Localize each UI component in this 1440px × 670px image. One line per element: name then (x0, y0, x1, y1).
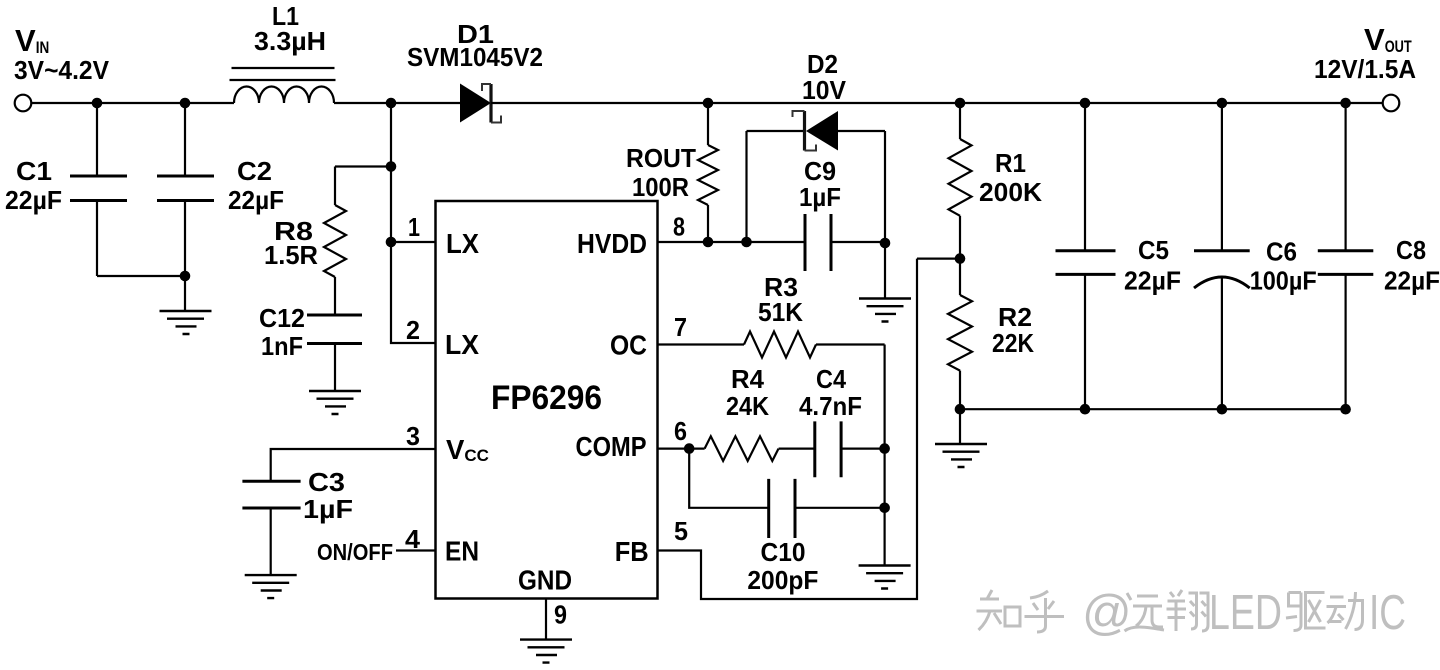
wire pin7 OC to R3 (658, 343, 745, 345)
svg-text:OC: OC (610, 330, 647, 361)
watermark char dong (1327, 592, 1363, 630)
svg-text:8: 8 (673, 212, 685, 242)
junction ROUT top (703, 98, 714, 109)
resistor R3 (744, 332, 885, 358)
watermark char zhi (977, 590, 1003, 630)
svg-text:22µF: 22µF (1124, 266, 1181, 296)
svg-text:3V~4.2V: 3V~4.2V (14, 55, 110, 85)
capacitor C12 (307, 315, 362, 391)
wire D2/C9 right vertical to ground (884, 131, 886, 299)
junction C6 top (1217, 98, 1228, 109)
svg-text:SVM1045V2: SVM1045V2 (407, 42, 543, 72)
svg-text:LX: LX (445, 329, 480, 360)
svg-text:9: 9 (554, 600, 567, 630)
svg-text:FB: FB (615, 536, 649, 567)
resistor R8 (324, 167, 346, 316)
junction R1/R2 FB node (955, 253, 966, 264)
svg-text:12V/1.5A: 12V/1.5A (1314, 54, 1416, 84)
wire COMP node down to C10 (689, 449, 769, 508)
ground under R3/C4/C10 vertical (859, 566, 911, 589)
svg-text:C3: C3 (308, 467, 345, 497)
junction C10 right (879, 503, 890, 514)
svg-text:IC: IC (1369, 586, 1406, 640)
svg-text:LED: LED (1209, 586, 1282, 640)
svg-text:ROUT: ROUT (626, 143, 696, 173)
junction R8 tap (386, 161, 397, 172)
junction R2 bottom ground node (955, 404, 966, 415)
junction C5 top (1080, 98, 1091, 109)
svg-text:4.7nF: 4.7nF (799, 391, 862, 421)
wire FB node to x917 (917, 258, 960, 260)
resistor R1 (949, 103, 972, 259)
svg-text:200pF: 200pF (747, 565, 818, 595)
junction LX node at x391 (386, 98, 397, 109)
resistor R4 (705, 436, 815, 461)
wire R3/C4/C10 right vertical to ground (883, 345, 885, 566)
junction C6 bottom (1217, 404, 1228, 415)
svg-text:C5: C5 (1138, 235, 1169, 265)
svg-text:C2: C2 (237, 156, 272, 186)
watermark char yuan (1125, 593, 1165, 631)
watermark zhihu logo text (977, 586, 1407, 640)
svg-text:HVDD: HVDD (577, 228, 647, 259)
wire D2 left vertical (745, 131, 747, 242)
svg-text:C10: C10 (761, 537, 806, 567)
svg-text:6: 6 (674, 416, 687, 446)
IC U1 FP6296 body (436, 201, 658, 599)
capacitor C1 (70, 103, 127, 276)
junction pin1 tap (386, 237, 397, 248)
watermark char qu (1286, 593, 1326, 631)
svg-text:C4: C4 (816, 364, 846, 394)
wire C1 bottom to C2 bottom (97, 275, 185, 277)
svg-text:2: 2 (406, 315, 420, 345)
svg-text:51K: 51K (758, 297, 803, 327)
ground under C3 (245, 575, 297, 598)
junction ROUT bottom (703, 237, 714, 248)
wire pin9 GND (545, 599, 547, 640)
svg-text:COMP: COMP (576, 431, 647, 462)
capacitor C9 (805, 214, 885, 271)
svg-text:10V: 10V (802, 75, 847, 105)
wire pin8 HVDD to C9 left (658, 241, 806, 243)
svg-text:22µF: 22µF (1384, 266, 1440, 296)
wire pin3 VCC to C3 (271, 449, 436, 481)
capacitor C6 polarized (1194, 103, 1250, 409)
svg-text:FP6296: FP6296 (491, 379, 602, 417)
junction C4 right (879, 443, 890, 454)
wire LX vertical x391 (391, 103, 436, 343)
wire ground bus to C5 C6 C8 (960, 408, 1346, 410)
svg-text:100R: 100R (632, 172, 689, 202)
svg-text:C1: C1 (16, 156, 52, 186)
junction R1 top (955, 98, 966, 109)
watermark char hu (1025, 591, 1065, 632)
svg-text:R1: R1 (995, 148, 1026, 178)
svg-text:22µF: 22µF (228, 185, 284, 215)
svg-text:22µF: 22µF (5, 185, 62, 215)
capacitor C8 (1318, 103, 1374, 409)
junction C8 bottom (1340, 404, 1351, 415)
node VOUT terminal (1383, 95, 1400, 112)
svg-text:7: 7 (674, 312, 687, 342)
wire pin4 EN (396, 549, 436, 551)
wire R8 top branch (335, 165, 391, 167)
ground under C1/C2 (160, 311, 212, 334)
wire input bus VIN to L1 (31, 102, 234, 104)
wire pin1 LX (391, 241, 436, 243)
junction D2 left leg (741, 237, 752, 248)
inductor L1 (230, 68, 336, 103)
svg-text:GND: GND (518, 564, 572, 595)
svg-text:1nF: 1nF (261, 331, 303, 361)
svg-text:1µF: 1µF (799, 182, 841, 212)
capacitor C2 (157, 103, 214, 311)
svg-text:1µF: 1µF (303, 494, 353, 524)
wire output bus D1 to VOUT (491, 102, 1383, 104)
svg-text:1: 1 (408, 212, 420, 242)
svg-text:R4: R4 (731, 364, 765, 394)
capacitor C10 (769, 479, 885, 538)
capacitor C3 (242, 481, 300, 575)
junction C8 top (1340, 98, 1351, 109)
resistor ROUT (698, 103, 718, 242)
svg-text:@: @ (1082, 586, 1132, 640)
svg-text:C6: C6 (1266, 237, 1297, 267)
svg-text:200K: 200K (979, 177, 1042, 207)
svg-text:5: 5 (674, 516, 688, 546)
svg-text:24K: 24K (726, 391, 769, 421)
svg-text:1.5R: 1.5R (264, 240, 318, 270)
wire pin6 COMP to R4 (658, 448, 705, 450)
resistor R2 (948, 259, 972, 410)
svg-text:22K: 22K (992, 328, 1034, 358)
watermark char xiang (1167, 590, 1209, 631)
junction C2 top (180, 98, 191, 109)
junction COMP node (684, 443, 695, 454)
junction C1/C2 ground node (180, 271, 191, 282)
svg-text:3.3µH: 3.3µH (254, 26, 326, 56)
junction C5 bottom (1080, 404, 1091, 415)
svg-text:100µF: 100µF (1250, 266, 1317, 296)
svg-text:C12: C12 (259, 303, 305, 333)
ground under C12 (309, 391, 361, 414)
wire R2 bottom to ground (959, 409, 961, 444)
junction C9 right (880, 238, 891, 249)
wire L1 to D1 anode (334, 102, 460, 104)
capacitor C5 (1056, 103, 1116, 409)
svg-text:C8: C8 (1396, 235, 1426, 265)
svg-text:LX: LX (446, 228, 480, 259)
svg-text:ON/OFF: ON/OFF (317, 539, 393, 565)
capacitor C4 (815, 421, 885, 477)
svg-text:EN: EN (445, 536, 479, 567)
ground under R2 (935, 444, 987, 467)
svg-text:3: 3 (406, 421, 420, 451)
node VIN terminal (15, 95, 32, 112)
ground under pin9 (520, 640, 572, 663)
wire pin5 FB to R1/R2 node (658, 259, 918, 599)
junction C1 top (92, 98, 103, 109)
diode D1 SVM1045V2 (460, 84, 501, 123)
ground under C9 right (859, 299, 911, 322)
zener diode D2 (747, 111, 886, 151)
